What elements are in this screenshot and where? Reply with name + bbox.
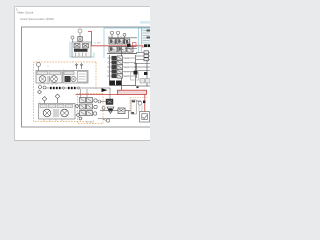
bottom distribution line <box>98 111 133 119</box>
svg-text:Avant Steer/Loader (4WD): Avant Steer/Loader (4WD) <box>20 17 54 21</box>
svg-text:st unit 1: st unit 1 <box>86 121 95 124</box>
svg-text:f: f <box>104 105 105 107</box>
gauge circle B2 <box>71 36 74 42</box>
valve bank base line <box>107 53 137 55</box>
svg-text:t: t <box>63 68 64 71</box>
brake symbols cluster <box>38 86 47 95</box>
rear axle side symbols <box>76 113 82 120</box>
steering valve squares col <box>80 98 93 116</box>
oil cooler C1 <box>142 28 151 43</box>
valve bank labels <box>108 36 123 38</box>
filter F1 <box>102 107 114 114</box>
ladder rung 1 <box>108 56 136 60</box>
ladder side box <box>131 72 139 80</box>
right auxiliary valve column <box>136 51 150 61</box>
svg-text:v: v <box>39 102 40 104</box>
control valve block row 1 <box>109 39 130 45</box>
front left wheel motor M1 <box>36 71 62 84</box>
gauge G2 <box>116 31 119 38</box>
schematic border frame <box>22 27 151 127</box>
hand pump HP1 <box>137 101 146 112</box>
control valve block row 2 <box>109 46 137 52</box>
pressure line from pump (red) <box>88 32 143 48</box>
accumulator A1 <box>131 100 137 114</box>
title text <box>16 8 54 21</box>
drain port circle <box>103 119 110 122</box>
ladder rung 4 <box>108 69 136 73</box>
label smudges <box>39 37 140 107</box>
drivetrain enclosure (orange dashed) <box>34 62 97 122</box>
steering pressure line (red) <box>76 94 119 96</box>
svg-text:Main Circuit: Main Circuit <box>18 11 34 15</box>
right lower manifold lines <box>134 60 150 86</box>
steering ports <box>76 99 98 115</box>
page corner tab <box>140 21 150 24</box>
mounting ticks rear axle <box>44 119 62 121</box>
ladder rung 2 <box>108 60 136 64</box>
return manifold (red) <box>118 90 147 111</box>
steering feed lines <box>81 89 88 98</box>
ladder rung 3 <box>108 65 136 69</box>
right lower valve marks <box>134 71 148 75</box>
steering enclosure (orange dashed) <box>78 94 104 124</box>
rear axle diamond <box>42 97 47 104</box>
main pressure drop line (red) <box>121 46 123 90</box>
suction line (teal) <box>70 42 94 57</box>
hand pump enclosure (orange dashed) <box>130 98 148 113</box>
gauge G3 <box>123 33 126 39</box>
svg-text:1.1 MPa: 1.1 MPa <box>94 42 102 44</box>
valve bank top rail <box>108 37 137 39</box>
rear axle motor assembly M3/M4 <box>39 104 76 120</box>
red relief cluster <box>90 43 136 48</box>
right rail gray boxes <box>140 79 150 84</box>
cooling circuit enclosure (cyan) <box>104 28 150 58</box>
junction tick <box>137 87 139 89</box>
mounting ticks front axle <box>40 83 56 85</box>
pilot valve on pump <box>78 37 83 43</box>
check valve arrows above motor <box>75 63 83 69</box>
arrow marker <box>102 88 108 92</box>
svg-text:t1: t1 <box>47 65 50 68</box>
drive pump unit P1 <box>72 42 91 57</box>
tow valve diamond <box>55 94 60 103</box>
coupling line <box>46 87 110 102</box>
fan motor FM1 <box>98 99 113 105</box>
valve ladder rails <box>110 55 137 86</box>
front right wheel motor M2 <box>63 71 88 84</box>
shuttle valve S1 <box>118 108 125 114</box>
front axle port circle <box>37 63 41 71</box>
ladder end caps <box>110 81 122 86</box>
ladder rung 5 <box>108 74 136 78</box>
gauge G1 <box>110 31 113 38</box>
solenoid marks row <box>127 44 150 47</box>
pump reservoir circle B1 <box>78 29 82 37</box>
tank box <box>140 112 150 123</box>
cooler lines (cyan) <box>138 28 150 53</box>
